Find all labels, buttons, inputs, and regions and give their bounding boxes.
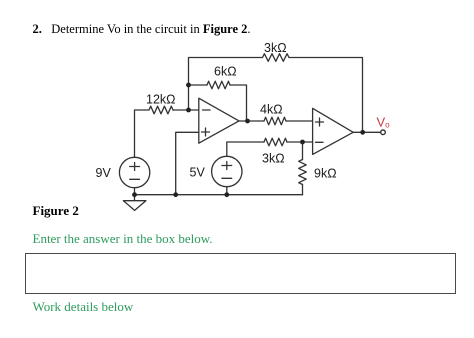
op-amp U1 minus sign: [203, 109, 211, 111]
wire: 9k top stub: [302, 142, 304, 160]
op-amp U1 plus sign: [202, 131, 210, 133]
svg-text:6kΩ: 6kΩ: [214, 65, 237, 79]
svg-text:3kΩ: 3kΩ: [262, 152, 285, 166]
op-amp U2 minus sign: [316, 141, 324, 143]
instruction text green: [33, 231, 213, 247]
title text: [33, 22, 251, 37]
wire: bottom ground rail: [135, 194, 303, 196]
svg-text:5V: 5V: [190, 166, 206, 180]
node F: 9V bottom / ground: [132, 192, 137, 197]
resistor R 3kOhm (top feedback): [263, 54, 290, 62]
svg-text:3kΩ: 3kΩ: [264, 41, 287, 55]
node A: junction 6k/3k feedback: [186, 83, 191, 88]
node H: 5V bottom at rail: [224, 192, 229, 197]
wire: 9V bottom stub: [134, 188, 136, 201]
wire: 3k to op-amp2 - input: [287, 141, 313, 143]
wire: 6k feedback left: [189, 84, 208, 86]
node D: inverting input op-amp2 / 9k top: [300, 140, 305, 145]
node C: op-amp1 output: [245, 119, 250, 124]
wire: op-amp2 output to Vo terminal: [353, 131, 380, 133]
svg-text:4kΩ: 4kΩ: [260, 103, 283, 117]
wire: 9V top vertical up to 12k level: [135, 110, 150, 158]
Figure 2 caption: [33, 203, 79, 219]
wire: op-amp1 + input down to ground rail: [176, 132, 199, 194]
wire: 6k feedback right down to output1: [230, 85, 247, 121]
wire: 4k to op-amp2 + input: [286, 120, 313, 122]
answer box: [25, 253, 456, 294]
svg-text:Vo: Vo: [377, 115, 391, 130]
node E: op-amp2 output: [360, 130, 365, 135]
work details text green: [33, 299, 134, 315]
wire: top feedback right + vertical to op-amp2 output: [289, 58, 363, 133]
wire: top feedback loop left vertical: [189, 58, 263, 111]
wire: 12k right to inverting input node: [173, 109, 199, 111]
svg-text:9kΩ: 9kΩ: [314, 167, 337, 181]
resistor R 9kOhm (vertical): [299, 160, 307, 185]
resistor R 4kOhm: [264, 117, 286, 125]
wire: 5V top up to middle wire: [227, 142, 264, 157]
wire: 5V bottom stub: [226, 187, 228, 195]
svg-text:12kΩ: 12kΩ: [146, 93, 176, 107]
node G: op-amp1 + wire at rail: [173, 192, 178, 197]
resistor R 3kOhm (to inverting input of op-amp2): [264, 138, 287, 146]
op-amp U2 plus sign: [316, 121, 324, 123]
resistor R 12kOhm: [149, 106, 173, 114]
op-amp U1: [199, 98, 239, 143]
terminal Vo (open circle): [381, 130, 386, 135]
op-amp U2: [313, 108, 354, 154]
voltage source V1 9V: [119, 157, 149, 187]
wire: 9k bottom to rail: [302, 185, 304, 195]
voltage source V2 5V: [212, 156, 242, 186]
node B: inverting input op-amp1: [186, 108, 191, 113]
wire: op-amp1 output to 4k: [239, 120, 264, 122]
resistor R 6kOhm (op-amp1 feedback): [207, 81, 230, 89]
svg-text:9V: 9V: [96, 166, 112, 180]
ground: [123, 201, 145, 211]
